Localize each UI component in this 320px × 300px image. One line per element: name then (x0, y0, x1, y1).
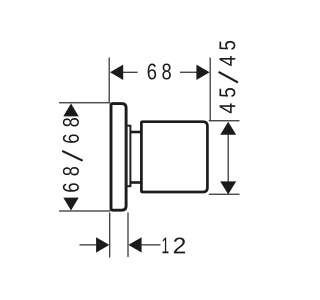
text 12 (bottom) (163, 237, 186, 253)
dimension line 68 left segment (123, 71, 138, 73)
extension line bottom-right (for 45/45 dim) (209, 193, 240, 195)
tail line 12 left (80, 244, 98, 246)
extension line right (for top 68 dim) (209, 58, 211, 122)
arrowhead 68/68 down (63, 198, 78, 211)
boss behind handle (127, 126, 131, 187)
extension line bottom dim right (127, 213, 129, 258)
arrowhead 45/45 up (220, 122, 236, 135)
dimension line 68 right segment (180, 71, 197, 73)
text 45/45 (rotated right) (219, 41, 238, 113)
extension line top-left (for 68/68 dim) (59, 102, 110, 104)
text 68 (top) (148, 63, 171, 79)
escutcheon plate (side view) (111, 104, 126, 211)
extension line bottom-left (for 68/68 dim) (59, 210, 110, 212)
extension line bottom dim left (109, 213, 111, 258)
arrowhead 12 right (128, 237, 141, 252)
arrowhead 68/68 up (63, 104, 78, 117)
extension line top-right (for 45/45 dim) (209, 120, 240, 122)
arrowhead 12 left (96, 237, 109, 252)
arrowhead 45/45 down (220, 181, 236, 194)
neck bottom edge (130, 181, 142, 184)
tail line 12 right (141, 244, 161, 246)
arrowhead 68 left (110, 65, 123, 80)
arrowhead 68 right (196, 65, 209, 80)
handle (grip) (141, 122, 207, 192)
neck top edge (130, 131, 142, 134)
text 68/68 (rotated left) (62, 118, 82, 192)
extension line left (for top 68 dim) (108, 58, 110, 104)
dimension line 45/45 (227, 133, 229, 183)
